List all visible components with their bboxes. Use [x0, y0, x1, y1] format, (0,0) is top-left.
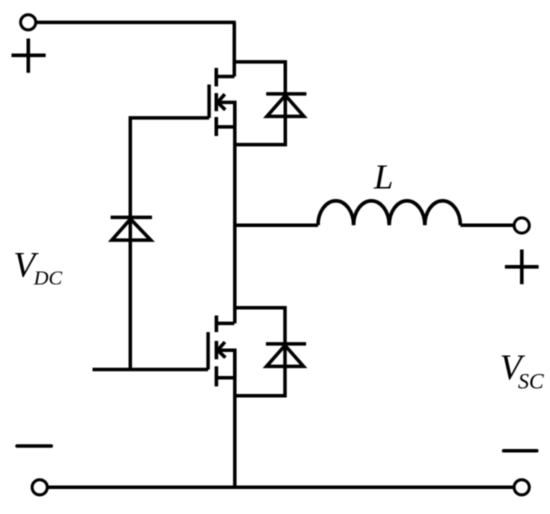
- svg-text:DC: DC: [33, 268, 63, 290]
- svg-text:SC: SC: [518, 368, 544, 393]
- svg-text:L: L: [373, 158, 393, 197]
